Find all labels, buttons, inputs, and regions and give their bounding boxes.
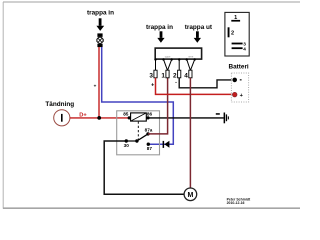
relay contact 30 wire to motor (black) (104, 141, 184, 194)
wire blue from connector to relay 87 via diode (102, 47, 174, 144)
connector J1 trappa in (top-left plug) (87, 9, 114, 47)
svg-text:nere: nere (188, 55, 194, 59)
pin 3 (154, 70, 157, 78)
svg-text:1: 1 (161, 73, 165, 80)
wire pin2 to battery minus (black) (179, 78, 234, 88)
node relay 86 (146, 116, 149, 119)
svg-text:86: 86 (147, 111, 153, 116)
svg-text:+: + (151, 82, 154, 88)
arrow trappa in (157, 31, 164, 42)
ignition switch Tändning (45, 101, 74, 126)
svg-text:M: M (187, 192, 193, 199)
wire 87a to switch pin 1 (dark red) (148, 78, 168, 134)
pin 4 (189, 70, 192, 78)
node junction D+ (97, 116, 101, 120)
title block text (227, 197, 251, 204)
node relay 85 (128, 116, 131, 119)
svg-text:87a: 87a (145, 127, 153, 132)
svg-text:2010-12-16: 2010-12-16 (227, 201, 245, 205)
svg-text:Tändning: Tändning (45, 101, 74, 108)
svg-text:3: 3 (149, 73, 153, 80)
svg-text:4: 4 (243, 47, 246, 52)
relay contact internals (124, 127, 153, 151)
dashed actuator link (137, 122, 139, 141)
wire pin4 to motor (dark red) (189, 78, 191, 188)
svg-text:30: 30 (124, 143, 130, 148)
svg-text:85: 85 (123, 111, 129, 116)
wire D+ red from ignition to relay 85 (70, 117, 129, 119)
pin 1 (166, 70, 169, 78)
wire 86 to ground (148, 117, 224, 119)
svg-text:+: + (94, 83, 97, 88)
wire red from connector down to D+ junction (98, 47, 100, 118)
svg-text:trappa in: trappa in (146, 24, 173, 31)
svg-text:2: 2 (231, 31, 234, 37)
relay K1 body (117, 111, 160, 155)
diode on 87 wire (163, 141, 170, 148)
pin 2 (178, 70, 181, 78)
legend box pinout (225, 12, 249, 56)
switch contacts and pins (154, 58, 196, 70)
svg-text:trappa in: trappa in (87, 9, 114, 16)
pin number labels (149, 73, 188, 80)
svg-text:Batteri: Batteri (228, 64, 248, 71)
relay coil (131, 113, 147, 121)
svg-text:4: 4 (184, 73, 188, 80)
motor M (184, 188, 197, 201)
svg-text:87: 87 (147, 146, 153, 151)
svg-text:trappa ut: trappa ut (185, 24, 213, 31)
arrow trappa ut (194, 31, 201, 42)
svg-text:D+: D+ (79, 113, 87, 119)
wire pin3 to battery plus (red) (156, 78, 235, 95)
ground chassis symbol (216, 113, 229, 124)
svg-text:-: - (175, 79, 177, 85)
switch S1 body (155, 48, 201, 59)
battery (228, 64, 248, 102)
svg-text:uppe: uppe (165, 56, 171, 59)
